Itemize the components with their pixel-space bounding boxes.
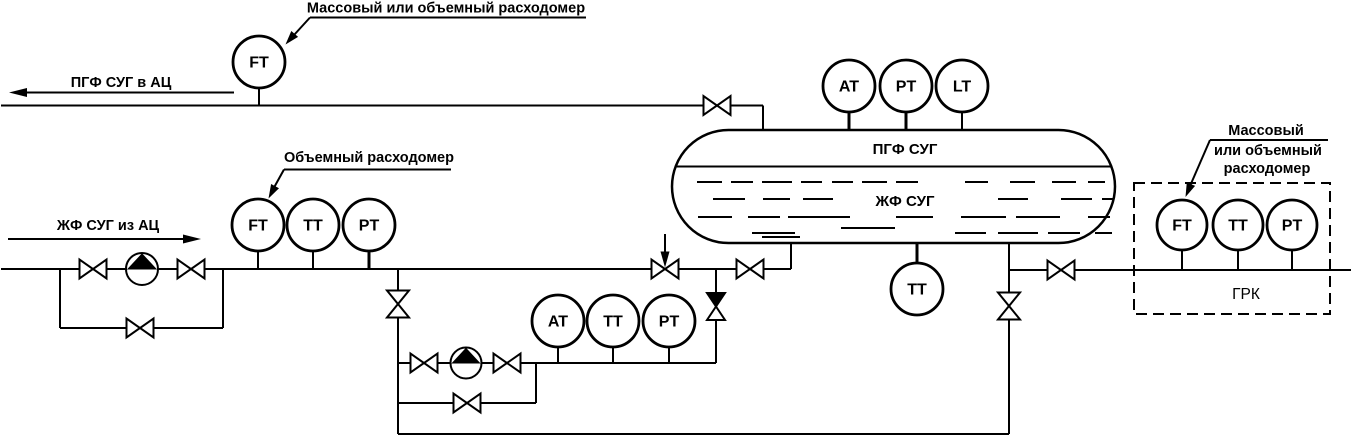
instrument PT on tank <box>880 60 932 112</box>
instrument FT stem <box>1181 250 1183 270</box>
svg-text:Массовый или объемный расходом: Массовый или объемный расходомер <box>307 1 585 17</box>
valve in pump bypass <box>127 319 154 338</box>
valve in lower bypass <box>454 394 481 413</box>
flow arrow line: ПГФ СУГ в АЦ <box>14 92 234 94</box>
instrument AT on tank <box>823 60 875 112</box>
svg-text:Массовый: Массовый <box>1228 123 1304 139</box>
liquid hatching dashes <box>697 181 722 183</box>
label leader underline (right) <box>1210 139 1328 141</box>
instrument PT <box>643 295 695 347</box>
wire: right downcomer from tank x=1009 <box>1008 243 1010 434</box>
pump P2 <box>451 348 482 379</box>
svg-text:ЖФ СУГ: ЖФ СУГ <box>875 193 935 210</box>
wire: vertical drop line at x=398 <box>397 269 399 434</box>
wire: main liquid pipe <box>1 268 791 270</box>
instrument FT (mass/volume flowmeter on gas line) stem <box>258 87 260 106</box>
svg-text:PT: PT <box>659 314 680 331</box>
valve after pump P2 <box>494 354 521 373</box>
svg-text:или объемный: или объемный <box>1214 143 1322 159</box>
instrument PT in GRK <box>1267 200 1317 250</box>
wire: check valve riser x=716 <box>715 269 717 363</box>
vessel: horizontal tank ПГФ/ЖФ СУГ <box>672 130 1115 243</box>
valve on top gas pipe <box>704 96 731 115</box>
svg-text:ПГФ СУГ в АЦ: ПГФ СУГ в АЦ <box>71 75 172 91</box>
svg-text:Объемный расходомер: Объемный расходомер <box>284 150 454 166</box>
svg-text:TT: TT <box>603 314 623 331</box>
label leader diagonal arrow to FT in GRK <box>1190 140 1210 186</box>
instrument TT <box>587 295 639 347</box>
dashed enclosure ГРК <box>1134 183 1330 314</box>
instrument PT stem <box>1291 250 1293 270</box>
svg-text:ЖФ СУГ из АЦ: ЖФ СУГ из АЦ <box>56 218 160 234</box>
control valve with arrow actuator <box>664 234 666 260</box>
instrument FT volumetric flowmeter <box>232 199 284 251</box>
svg-text:ГРК: ГРК <box>1232 286 1260 303</box>
instrument FT in GRK <box>1157 200 1207 250</box>
instrument AT <box>532 295 584 347</box>
instrument LT stem <box>961 112 963 131</box>
wire: lower bypass line <box>398 402 536 404</box>
shutoff valve before GRK <box>1048 261 1075 280</box>
svg-text:расходомер: расходомер <box>1224 161 1311 177</box>
pump P1 <box>126 253 158 285</box>
wire: pump bypass loop left leg <box>59 269 61 328</box>
svg-text:AT: AT <box>548 314 568 331</box>
svg-text:AT: AT <box>839 79 859 96</box>
instrument TT stem below tank <box>916 243 919 263</box>
svg-text:ПГФ СУГ: ПГФ СУГ <box>873 141 938 158</box>
instrument FT gas flowmeter <box>233 36 285 88</box>
wire: liquid pipe to GRK <box>1009 269 1351 271</box>
wire: riser to tank bottom at x=791 <box>790 243 792 269</box>
svg-text:FT: FT <box>1172 218 1192 235</box>
instrument AT stem <box>557 347 559 363</box>
label leader diagonal arrow to FT <box>271 170 284 194</box>
check valve (filled top triangle) <box>707 293 725 307</box>
wire: top gas pipe from tank to left edge <box>1 105 763 107</box>
vertical valve on right downcomer <box>998 293 1020 320</box>
instrument PT stem <box>668 347 670 363</box>
wire: step down from branch to lower bypass <box>535 363 537 403</box>
svg-text:TT: TT <box>303 218 323 235</box>
svg-text:PT: PT <box>1282 218 1303 235</box>
svg-text:PT: PT <box>896 79 917 96</box>
valve before pump P2 <box>411 354 438 373</box>
instrument TT stem <box>612 347 614 363</box>
svg-text:FT: FT <box>248 218 268 235</box>
wire: pump bypass loop right leg <box>222 269 224 328</box>
svg-text:LT: LT <box>953 79 972 96</box>
svg-text:TT: TT <box>907 282 927 299</box>
wire: pump bypass loop bottom <box>60 327 223 329</box>
label leader underline <box>284 169 451 171</box>
instrument TT stem <box>1237 250 1239 270</box>
instrument PT <box>343 199 395 251</box>
instrument FT stem <box>257 251 259 269</box>
instrument LT on tank <box>936 60 988 112</box>
label leader diagonal arrow to FT <box>289 18 310 41</box>
wire: bottom return line <box>398 433 1009 435</box>
shutoff valve before tank bottom inlet <box>737 260 764 279</box>
instrument TT below tank <box>891 263 943 315</box>
instrument AT stem <box>848 112 851 131</box>
instrument TT stem <box>312 251 314 269</box>
instrument TT in GRK <box>1213 200 1263 250</box>
instrument TT <box>287 199 339 251</box>
svg-text:FT: FT <box>249 55 269 72</box>
flow arrow line: ЖФ СУГ из АЦ <box>8 238 195 240</box>
shutoff valve before pump P1 <box>80 260 107 279</box>
wire: elbow down to tank top at x=763 <box>762 106 764 132</box>
svg-text:PT: PT <box>359 218 380 235</box>
instrument PT stem <box>905 112 908 131</box>
label leader underline <box>310 17 586 19</box>
liquid level line in tank <box>675 166 1112 168</box>
wire: pump branch line y=363 <box>398 362 716 364</box>
instrument PT stem <box>368 251 371 269</box>
shutoff valve after pump P1 <box>178 260 205 279</box>
vertical valve on drop line <box>387 291 409 318</box>
svg-text:TT: TT <box>1228 218 1248 235</box>
